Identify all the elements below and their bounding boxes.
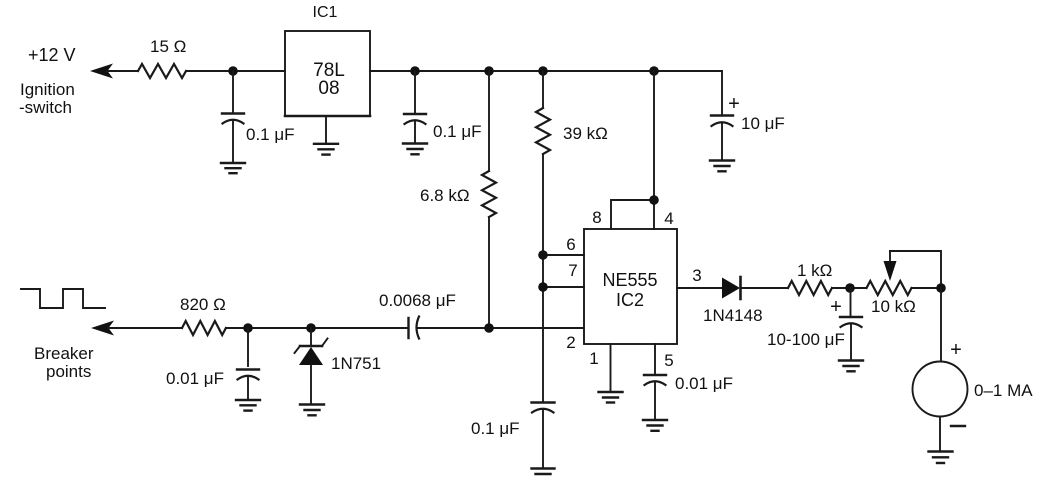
svg-text:Breaker: Breaker	[34, 344, 94, 363]
node +12V arrow (ignition switch feed)	[90, 64, 138, 79]
svg-text:15 Ω: 15 Ω	[150, 37, 186, 56]
svg-text:1N751: 1N751	[331, 354, 381, 373]
potentiometer R 10 kohm (rheostat)	[867, 251, 942, 316]
capacitor C 10 uF	[711, 71, 785, 159]
diode D 1N4148	[703, 277, 788, 325]
svg-text:0.01 μF: 0.01 μF	[675, 374, 733, 393]
resistor R 39 kohm	[536, 71, 608, 402]
svg-text:1 kΩ: 1 kΩ	[797, 261, 832, 280]
capacitor C 0.1 uF (pin 7 timing)	[471, 403, 555, 468]
svg-text:7: 7	[568, 261, 577, 280]
svg-text:6: 6	[566, 235, 575, 254]
pin 6 wire	[543, 254, 584, 256]
svg-text:IC2: IC2	[616, 290, 644, 310]
svg-text:10 kΩ: 10 kΩ	[871, 297, 916, 316]
capacitor C 0.01 uF (pin 5)	[644, 374, 733, 420]
node rail at 6.8k	[484, 66, 494, 76]
pin 5 wire	[654, 344, 656, 374]
ground (output cap)	[403, 144, 427, 155]
svg-text:10 μF: 10 μF	[741, 114, 785, 133]
wire cap to pin 2	[417, 327, 585, 329]
svg-text:0.0068 μF: 0.0068 μF	[379, 291, 456, 310]
svg-text:+: +	[830, 296, 842, 318]
svg-text:4: 4	[664, 209, 673, 228]
ground (0.01uF breaker)	[236, 400, 260, 411]
wire top rail IC1 output to 10uF corner	[370, 70, 722, 72]
resistor R 6.8 kohm	[420, 71, 496, 328]
node rail at 39k	[538, 66, 548, 76]
node rail at 0.1uF	[410, 66, 420, 76]
pin 1 wire	[610, 344, 612, 391]
svg-text:5: 5	[664, 351, 673, 370]
wire 15ohm to IC1	[186, 70, 285, 72]
svg-text:820 Ω: 820 Ω	[180, 295, 226, 314]
svg-text:6.8 kΩ: 6.8 kΩ	[420, 186, 470, 205]
svg-text:1N4148: 1N4148	[703, 306, 763, 325]
resistor R 1 kohm	[788, 261, 832, 295]
svg-text:1: 1	[589, 349, 598, 368]
node rail at pin4 drop	[649, 66, 659, 76]
pin 3 wire	[677, 287, 722, 289]
resistor R 15 ohm	[138, 37, 186, 78]
ground (IC1)	[314, 116, 338, 155]
ground (meter)	[929, 452, 953, 464]
zener diode D 1N751	[295, 328, 382, 403]
wire rail drop to pins 8/4	[611, 71, 654, 229]
svg-text:8: 8	[592, 208, 601, 227]
node pin 6	[538, 250, 548, 260]
capacitor 0.1 uF (input)	[222, 71, 295, 161]
ground (10uF)	[710, 161, 734, 172]
ground (pin 1)	[599, 392, 623, 403]
pin 7 wire	[543, 286, 584, 288]
node pins 8-4 tie	[649, 195, 659, 205]
op-amp U1 regulator IC1 78L08 box	[285, 31, 370, 116]
node breaker points waveform	[21, 289, 105, 308]
svg-text:-switch: -switch	[19, 98, 72, 117]
node breaker arrow	[91, 321, 182, 336]
op-amp U2 timer NE555 IC2 box	[584, 229, 677, 344]
capacitor C 0.01 uF (breaker)	[166, 328, 259, 399]
wire 820 to cap 0.0068	[226, 327, 408, 329]
node filter tap	[845, 283, 855, 293]
svg-text:08: 08	[318, 78, 339, 99]
svg-text:0.1 μF: 0.1 μF	[471, 419, 520, 438]
svg-text:0.01 μF: 0.01 μF	[166, 369, 224, 388]
capacitor 0.1 uF (regulator output)	[404, 71, 482, 142]
svg-text:10-100 μF: 10-100 μF	[767, 330, 845, 349]
svg-text:0.1 μF: 0.1 μF	[246, 125, 295, 144]
svg-text:+: +	[950, 339, 962, 361]
resistor R 820 ohm	[180, 295, 226, 335]
svg-text:0–1 MA: 0–1 MA	[974, 381, 1033, 400]
svg-text:2: 2	[566, 333, 575, 352]
ground (10-100uF)	[839, 361, 863, 372]
ground (input cap)	[221, 163, 245, 173]
node pin 7	[538, 282, 548, 292]
node junction at input cap	[228, 66, 238, 76]
svg-text:0.1 μF: 0.1 μF	[433, 122, 482, 141]
svg-text:39 kΩ: 39 kΩ	[563, 124, 608, 143]
svg-text:3: 3	[692, 266, 701, 285]
capacitor C 0.0068 uF	[379, 291, 456, 339]
meter M 0-1 MA	[913, 288, 1034, 450]
wire 1k to pot	[832, 287, 867, 289]
node 6.8k to pin2	[484, 323, 494, 333]
ground (timing cap)	[532, 469, 555, 475]
node 0.01uF tap	[243, 323, 253, 333]
svg-text:+: +	[728, 93, 740, 115]
svg-text:IC1: IC1	[313, 4, 338, 21]
svg-text:+12 V: +12 V	[28, 45, 76, 65]
svg-text:NE555: NE555	[602, 270, 657, 290]
ground (pin 5 cap)	[643, 420, 667, 431]
svg-text:Ignition: Ignition	[20, 80, 75, 99]
capacitor C 10-100 uF	[767, 288, 862, 359]
node meter tap	[936, 283, 946, 293]
node zener tap	[306, 323, 316, 333]
svg-text:points: points	[46, 362, 91, 381]
ground (zener)	[300, 405, 324, 416]
